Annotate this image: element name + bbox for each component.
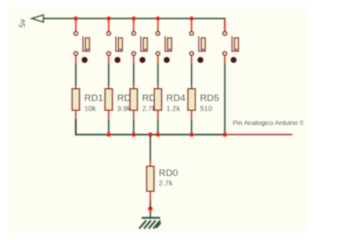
push button 1: actuator bar (82, 36, 90, 51)
resistor RD0 body (147, 166, 154, 191)
wire: RD1 to bottom rail (75, 119, 77, 135)
wire: red stub below button 6 (224, 56, 226, 64)
wire: red stub above RD2 (108, 86, 110, 90)
wire: red stub below button 2 (108, 56, 110, 64)
wire: red stub below RD5 (191, 110, 193, 119)
node: bottom rail junction (156, 132, 161, 137)
push button 5: plunger (201, 38, 205, 50)
svg-text:RD0: RD0 (159, 168, 178, 179)
push button 4: top terminal (156, 31, 160, 35)
push button 3: actuator bar (140, 36, 148, 51)
push button 6: bottom terminal (223, 52, 227, 56)
wire: RD0 to ground (149, 201, 151, 218)
svg-text:1.2k: 1.2k (166, 104, 180, 113)
node: top rail junction 5 (189, 16, 194, 21)
svg-text:10k: 10k (84, 104, 96, 113)
push button 2: plunger (118, 38, 122, 50)
wire: RD2 to bottom rail (108, 119, 110, 135)
push button 2: top terminal (107, 31, 111, 35)
push button 3: bottom terminal (132, 52, 136, 56)
wire: red stub from rail to button 2 (108, 19, 110, 31)
node: ground junction dot (148, 206, 153, 211)
push button 3: plunger (143, 38, 147, 50)
push button 4: actuator bar (164, 36, 172, 51)
wire: red stub above RD5 (191, 86, 193, 90)
node: bottom rail junction (131, 132, 136, 137)
wire: red stub above RD0 (149, 161, 151, 167)
wire: red stub below button 1 (75, 56, 77, 64)
svg-text:5v: 5v (18, 19, 27, 27)
push button 6: actuator bar (231, 36, 239, 51)
svg-text:3.9k: 3.9k (117, 104, 131, 113)
node: top rail junction 3 (131, 16, 136, 21)
wire: red net to Arduino analog pin (225, 134, 293, 136)
node: top rail junction 4 (156, 16, 161, 21)
push button 2: indicator dot (115, 57, 120, 62)
resistor RD5 body (188, 89, 195, 111)
wire: red stub below RD4 (157, 110, 159, 119)
wire: output node down to RD0 (149, 135, 151, 161)
wire: RD5 to bottom rail (191, 119, 193, 135)
resistor RD3 body (130, 89, 137, 111)
resistor RD4 body (154, 89, 161, 111)
wire: red stub from rail to button 3 (133, 19, 135, 31)
wire: red stub below button 3 (133, 56, 135, 64)
push button 1: top terminal (74, 31, 78, 35)
push button 5: indicator dot (198, 57, 203, 62)
node: bottom rail junction (148, 132, 153, 137)
node: bottom rail junction (106, 132, 111, 137)
wire: red stub above RD1 (75, 86, 77, 90)
wire: red stub below RD0 (149, 191, 151, 200)
wire: button 6 direct to output node (224, 63, 226, 134)
svg-text:Pin Analogico Arduino 0: Pin Analogico Arduino 0 (233, 120, 304, 127)
svg-text:2.7k: 2.7k (159, 178, 173, 187)
push button 4: bottom terminal (156, 52, 160, 56)
wire: red stub above RD4 (157, 86, 159, 90)
wire: button 4 to resistor RD4 (157, 63, 159, 86)
wire: button 5 to resistor RD5 (191, 63, 193, 86)
push button 4: plunger (168, 38, 172, 50)
push button 1: plunger (85, 38, 89, 50)
svg-text:RD5: RD5 (200, 93, 219, 104)
wire: button 2 to resistor RD2 (108, 63, 110, 86)
node: bottom rail junction (222, 132, 227, 137)
push button 2: bottom terminal (107, 52, 111, 56)
wire: button 3 to resistor RD3 (133, 63, 135, 86)
push button 3: top terminal (132, 31, 136, 35)
wire: red stub below button 4 (157, 56, 159, 64)
wire: red stub from rail to button 1 (75, 19, 77, 31)
svg-text:RD4: RD4 (166, 93, 186, 104)
wire: red stub below button 5 (191, 56, 193, 64)
ground (139, 218, 161, 229)
push button 3: indicator dot (140, 57, 145, 62)
push button 1: bottom terminal (74, 52, 78, 56)
resistor RD1 body (72, 89, 79, 111)
push button 1: indicator dot (82, 57, 87, 62)
wire: top 5V rail (34, 19, 225, 32)
push button 6: top terminal (223, 31, 227, 35)
wire: red stub from rail to button 5 (191, 19, 193, 31)
wire: bottom output rail (76, 119, 225, 135)
wire: RD3 to bottom rail (133, 119, 135, 135)
wire: button 1 to resistor RD1 (75, 63, 77, 86)
node: bottom rail junction (189, 132, 194, 137)
wire: red stub below RD2 (108, 110, 110, 119)
wire: red stub from rail to button 4 (157, 19, 159, 31)
resistor RD2 body (105, 89, 112, 111)
wire: RD4 to bottom rail (157, 119, 159, 135)
wire: red stub above RD3 (133, 86, 135, 90)
push button 6: plunger (234, 38, 238, 50)
power terminal 5v (arrow) (32, 15, 44, 22)
wire: red stub below RD1 (75, 110, 77, 119)
wire: red stub from rail to button 6 (224, 19, 226, 31)
svg-text:RD1: RD1 (84, 93, 103, 104)
node: top rail junction 1 (74, 16, 79, 21)
push button 6: indicator dot (231, 57, 236, 62)
push button 2: actuator bar (115, 36, 123, 51)
push button 5: actuator bar (198, 36, 206, 51)
node: top rail junction 2 (106, 16, 111, 21)
wire: red stub below RD3 (133, 110, 135, 119)
svg-text:510: 510 (200, 104, 212, 113)
push button 5: bottom terminal (190, 52, 194, 56)
push button 5: top terminal (190, 31, 194, 35)
push button 4: indicator dot (164, 57, 169, 62)
